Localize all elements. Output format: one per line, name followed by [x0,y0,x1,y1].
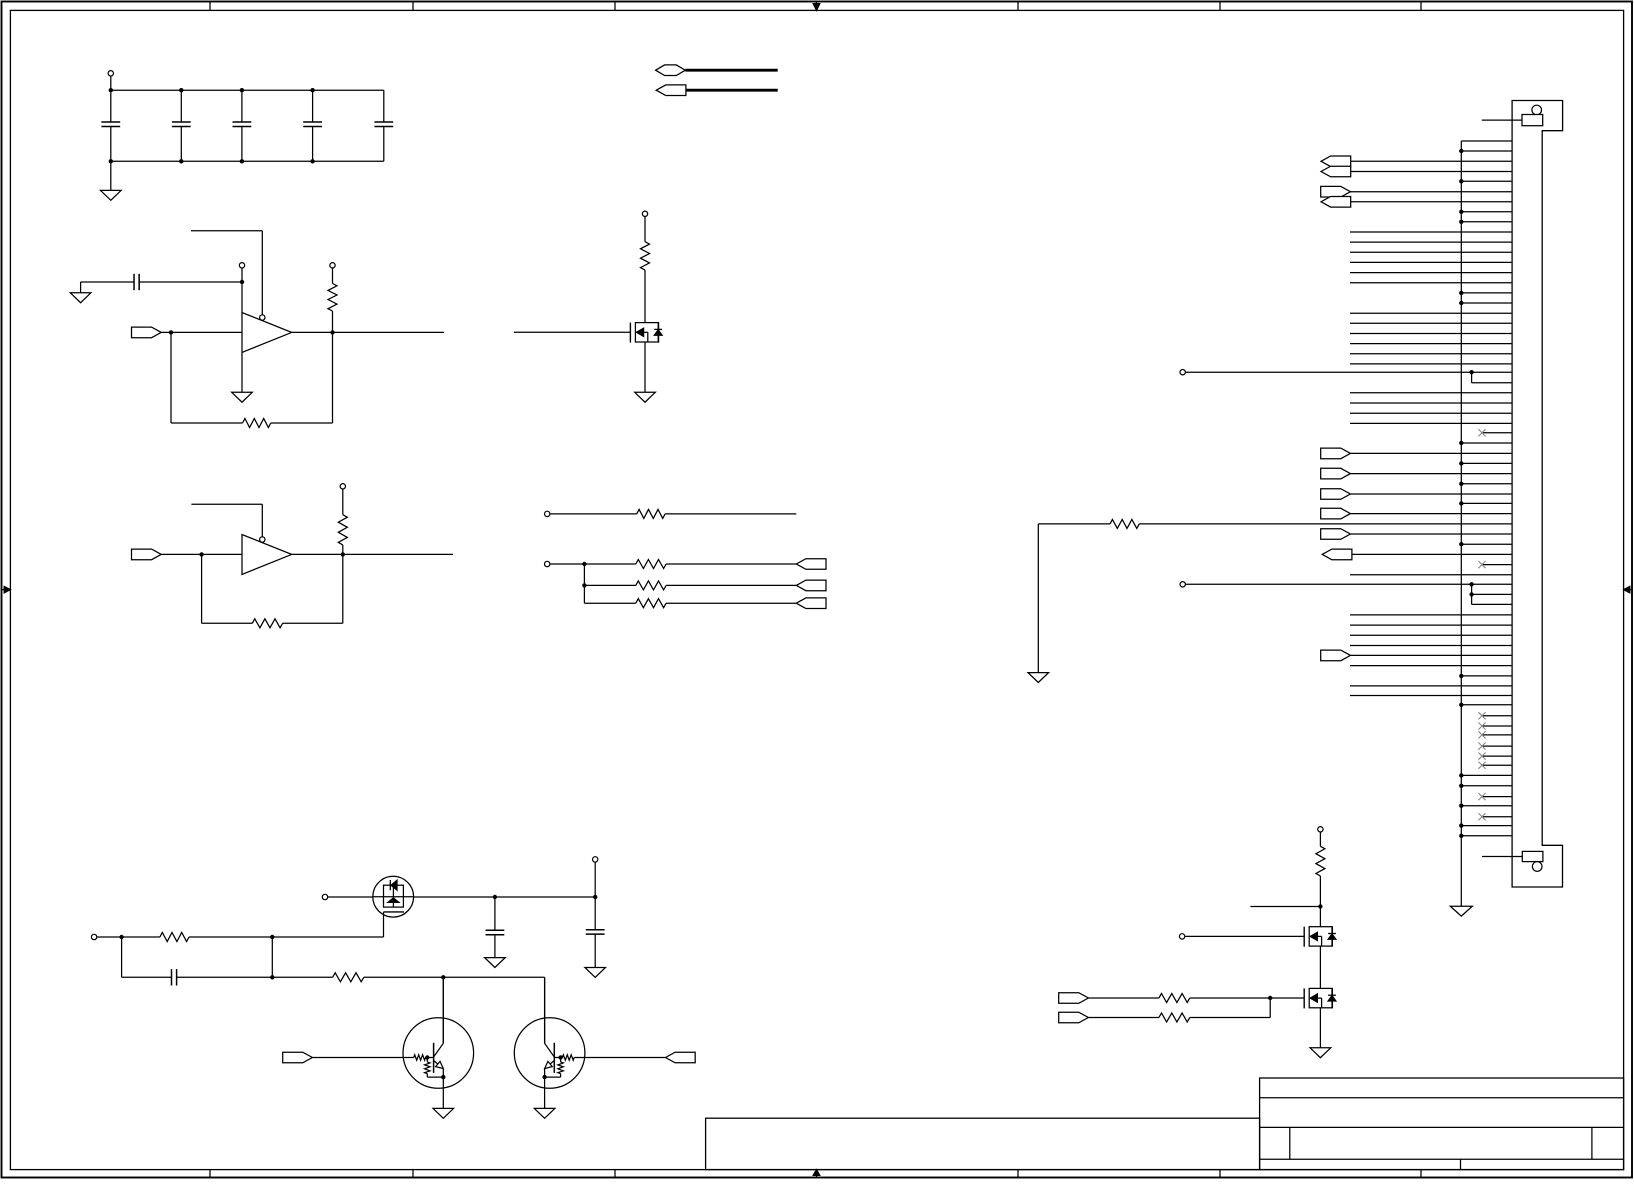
resistor R13 [1088,998,1270,1022]
resistor R15 [1038,519,1512,528]
inversion bubble U2 [260,537,265,542]
wire mounting pin [1482,119,1522,121]
ground [1310,1008,1331,1058]
wire ground pin [1459,804,1512,808]
op-amp U1 [242,313,292,353]
port [1321,197,1512,208]
port [1321,186,1512,197]
ground [1028,524,1049,683]
junction [199,552,203,556]
port IN3 [283,1052,313,1063]
junction [119,935,123,939]
no-connect pin [1478,753,1511,760]
wire base Q4 [574,1057,665,1059]
capacitor C2 [172,90,191,161]
capacitor C1 [101,90,120,161]
junction [169,330,173,334]
wire enable net U2 [191,504,262,537]
wire collector Q3 [442,977,444,1043]
connector J1 [1512,101,1563,888]
wire [139,281,242,283]
wire ground pin [1459,542,1512,546]
port OUT4 [796,580,826,591]
wire pin [1350,574,1512,576]
wire gate Q5 [1185,935,1304,937]
wire ground pin [1459,834,1512,838]
port [1321,166,1512,177]
wire pin [1350,402,1512,404]
wire ground pin [1459,210,1512,214]
wire pin [1350,645,1512,647]
wire collector Q4 [544,977,546,1043]
wire pin [1350,392,1512,394]
resistor R12 [1088,994,1270,1003]
junction [1469,592,1473,596]
junction [582,562,586,566]
port IN4 [1059,993,1089,1004]
wire pin [1350,251,1512,253]
wire enable net U1 [191,231,262,315]
port [1321,529,1512,540]
junction [1268,996,1272,1000]
resistor R5 [641,211,650,270]
port [1321,448,1512,459]
wire top rail [111,89,384,91]
transistor Q1 [630,323,662,343]
wire ground pin [1459,823,1512,827]
wire base Q3 [312,1057,413,1059]
op-amp U2 [242,535,292,575]
transistor Q4 [514,977,585,1088]
wire ground pin [1459,461,1512,465]
ground [1450,906,1472,916]
wire [241,282,243,313]
resistor R11 [272,973,544,982]
wire pin [1350,312,1512,314]
wire pin 1 [1461,140,1512,142]
wire ground pin [1459,301,1512,305]
capacitor C9 [122,937,273,986]
junction [341,552,345,556]
wire [1472,372,1512,383]
wire [1319,946,1321,988]
terminal [545,561,585,566]
junction [441,975,445,979]
wire net B [1185,583,1511,585]
port BUS1 [656,65,686,76]
wire pin [1350,624,1512,626]
junction [270,975,274,979]
capacitor C5 [374,90,393,161]
resistor R2 feedback [171,332,333,427]
wire ground bus [1460,141,1462,906]
junction [179,88,183,164]
no-connect pin [1478,743,1511,750]
ground [433,1077,454,1118]
wire pin [1350,231,1512,233]
wire pin [1350,665,1512,667]
terminal [1180,582,1185,587]
capacitor C4 [303,90,322,161]
wire ground pin [1459,149,1512,153]
wire ground pin [1459,773,1512,777]
wire ground pin [1459,291,1512,295]
wire pin [1350,343,1512,345]
terminal [1179,934,1184,939]
junction [240,88,244,164]
junction [1469,582,1473,586]
wire pin [1350,614,1512,616]
resistor R9 [584,599,796,608]
capacitor C3 [233,90,252,161]
port IN2 [132,549,162,560]
transistor Q6 [1304,988,1336,1008]
wire ground pin [1459,220,1512,224]
wire pin [1350,282,1512,284]
port OUT6 [666,1052,696,1063]
resistor R3 [338,484,347,555]
wire pin [1350,363,1512,365]
junction [330,330,334,334]
resistor R6 [545,509,797,518]
wire drain Q1 [644,270,646,323]
wire [583,585,585,603]
wire drain Q2 [414,896,597,898]
ground [534,1077,555,1118]
wire pin [1350,261,1512,263]
no-connect pin [1478,722,1511,729]
wire [161,553,242,555]
wire ground pin [1459,482,1512,486]
inversion bubble U1 [260,315,265,320]
wire ground pin [1459,501,1512,505]
terminal [322,894,373,899]
bus wire [685,69,777,72]
wire pin [1350,272,1512,274]
junction [1469,370,1473,374]
junction [582,583,586,587]
terminal [239,263,244,282]
no-connect pin [1478,731,1511,738]
resistor R14 [1316,827,1325,876]
wire pin [1350,634,1512,636]
port [1321,156,1512,167]
port OUT5 [796,598,826,609]
port IN5 [1059,1012,1089,1023]
resistor R4 feedback [202,554,343,627]
bus wire [686,89,778,92]
wire ground pin [1459,703,1512,707]
wire [272,936,383,938]
wire pin [1350,685,1512,687]
terminal [91,934,121,939]
junction [109,88,113,164]
no-connect pin [1478,813,1511,820]
wire pin [1350,412,1512,414]
wire bottom rail [111,160,384,162]
wire pin [1350,353,1512,355]
port [1321,489,1512,500]
resistor R10 [122,933,273,942]
transistor Q5 [1304,927,1336,947]
wire pin [1350,241,1512,243]
port [1321,650,1512,661]
wire gate Q6 [1270,997,1304,999]
junction [240,280,244,284]
wire pin [1350,695,1512,697]
no-connect pin [1478,429,1511,436]
terminal [1180,370,1185,375]
junction [310,88,314,164]
resistor R7 [584,560,796,569]
no-connect pin [1478,793,1511,800]
wire [161,331,242,333]
junction [1318,904,1322,908]
wire ground pin [1459,441,1512,445]
wire pin [1350,333,1512,335]
no-connect pin [1478,712,1511,719]
wire [1319,876,1321,927]
title block [706,1078,1624,1170]
capacitor C6 [134,274,139,290]
wire output U2 [292,553,453,555]
port OUT3 [796,559,826,570]
port BUS2 [656,85,686,96]
wire mounting pin [1482,856,1522,858]
wire gate Q2 [383,912,385,937]
wire ground pin [1459,784,1512,788]
capacitor C8 [586,897,605,968]
junction [270,935,274,939]
resistor R1 [328,263,337,333]
ground [101,161,122,200]
wire gate Q1 [514,331,631,333]
port [1322,549,1512,560]
terminal P1 [108,71,113,91]
transistor Q2 [373,876,414,917]
wire output U1 [292,331,444,333]
no-connect pin [1478,561,1511,568]
port [1321,508,1512,519]
no-connect pin [1478,762,1511,769]
wire [583,564,585,585]
junction [493,895,598,899]
ground [232,352,253,402]
wire pin [1350,422,1512,424]
port [1321,468,1512,479]
ground [585,968,606,978]
transistor Q3 [403,977,474,1088]
wire [1472,584,1512,604]
wire net A [1185,371,1511,373]
wire pin [1350,322,1512,324]
ground [635,342,656,402]
port IN1 [132,327,162,338]
wire ground pin [1459,674,1512,678]
wire [81,281,134,283]
capacitor C7 [486,897,505,958]
ground [70,282,91,303]
wire stub [1250,906,1320,908]
resistor R8 [584,581,796,590]
terminal [593,857,598,897]
wire [271,937,273,977]
ground [485,958,506,968]
wire ground pin [1459,179,1512,183]
